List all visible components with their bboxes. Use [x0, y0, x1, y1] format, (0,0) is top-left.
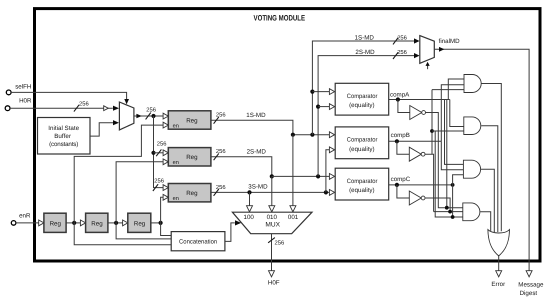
node 1S bus junction on riser — [310, 133, 314, 137]
bus slash 256 after input mux — [146, 113, 151, 120]
svg-text:256: 256 — [146, 107, 156, 114]
wire enB tap to Concatenation — [116, 223, 171, 239]
node enA junction — [72, 221, 76, 225]
svg-text:3S-MD: 3S-MD — [248, 183, 268, 190]
wire compC to inverter U3 — [397, 185, 409, 198]
wire enA tap to Concatenation — [74, 223, 171, 245]
comparator compB (equality 1S vs 3S) — [329, 132, 334, 138]
buffer triangle on H0R wire — [104, 106, 109, 111]
svg-text:(equality): (equality) — [349, 146, 375, 153]
register Reg3 (3rd stage MD) — [163, 185, 168, 191]
svg-text:256: 256 — [397, 49, 407, 56]
register RegB (enable delay 2) — [86, 213, 108, 232]
wire compC riser to AND4 input 3 — [453, 185, 463, 217]
svg-text:Reg: Reg — [186, 190, 198, 197]
inverter U2 (NOT compB) — [409, 147, 421, 161]
input port selFH — [6, 90, 11, 95]
wire input mux output to node A — [134, 115, 163, 117]
bus slash 256 on H0R wire — [74, 105, 79, 112]
node compC junction — [395, 183, 399, 187]
wire compA to inverter U1 — [398, 100, 410, 113]
svg-text:256: 256 — [275, 240, 285, 247]
wire Reg1 output 1S-MD — [211, 120, 330, 134]
register Reg1 (1st stage MD) — [163, 113, 168, 119]
node 2S bus junction on riser — [316, 174, 320, 178]
and-gate AND4 — [463, 203, 480, 221]
wire AND2 output to OR — [481, 126, 498, 232]
svg-text:010: 010 — [267, 214, 278, 221]
mux MUX (trapezoid) — [232, 212, 312, 234]
output arrow Message Digest — [526, 271, 532, 277]
svg-text:(equality): (equality) — [349, 187, 375, 194]
wire Reg2 output 2S-MD — [211, 157, 272, 177]
wire inverter U2 output riser — [425, 154, 434, 211]
wire compA riser to AND3 input 1 — [445, 100, 464, 165]
wire finalMD select stub — [427, 66, 429, 70]
svg-text:256: 256 — [79, 100, 89, 107]
Concatenation box — [171, 232, 225, 251]
wire 1S-MD riser up to finalMD mux — [312, 41, 415, 135]
or-gate OR (Error) — [488, 230, 510, 256]
wire compA riser joins AND4 input 1 — [446, 100, 448, 208]
wire 2S-MD riser up to finalMD mux — [318, 56, 415, 177]
node AND4 input 3 dot — [451, 215, 455, 219]
wire RegC tap to Concatenation — [161, 223, 172, 236]
wire enC riser to Reg3 enable — [161, 197, 164, 223]
wire inverter U1 output riser — [425, 113, 463, 208]
svg-text:Initial State: Initial State — [48, 125, 79, 132]
svg-text:Error: Error — [491, 281, 505, 288]
register Reg2 (2nd stage MD) — [163, 150, 168, 156]
svg-text:(equality): (equality) — [349, 102, 375, 109]
svg-text:1S-MD: 1S-MD — [355, 34, 375, 41]
wire compC output — [389, 184, 453, 186]
svg-text:Comparator: Comparator — [347, 178, 378, 185]
svg-text:selFH: selFH — [15, 83, 31, 90]
svg-text:Message: Message — [518, 281, 544, 288]
wire AND4 output to OR — [480, 212, 491, 231]
wire Initial State Buffer to input mux — [90, 123, 113, 136]
node compA junction — [396, 97, 400, 101]
svg-text:en: en — [173, 123, 179, 129]
wire RegC output — [151, 222, 161, 224]
wire compB riser to AND1 input 2 — [441, 85, 464, 142]
wire MUX output H0F — [271, 234, 273, 271]
node 1S riser to bottom MUX input 001 — [291, 133, 295, 137]
svg-text:H0F: H0F — [268, 279, 280, 286]
svg-text:Reg: Reg — [50, 220, 62, 227]
svg-text:Reg: Reg — [134, 220, 146, 227]
svg-text:Reg: Reg — [186, 154, 198, 161]
svg-text:2S-MD: 2S-MD — [247, 149, 267, 156]
wire Reg3 output 3S-MD — [211, 191, 330, 193]
module border box VOTING MODULE — [35, 9, 541, 261]
register RegA (enable delay 1) — [44, 213, 66, 232]
input port H0R — [5, 106, 10, 111]
node 2S junction — [270, 174, 274, 178]
node invB tap for AND2 — [430, 129, 434, 133]
wire AND4 input 2 — [434, 211, 463, 213]
and-gate AND3 — [463, 160, 480, 178]
svg-text:finalMD: finalMD — [439, 38, 461, 45]
register RegC (enable delay 3) — [128, 213, 151, 232]
svg-text:enR: enR — [19, 212, 31, 219]
svg-text:256: 256 — [216, 148, 226, 155]
wire compB output — [389, 140, 442, 142]
svg-text:100: 100 — [244, 214, 255, 221]
wire H0R to input mux — [10, 107, 113, 109]
node invC join on AND4 input 2 — [448, 210, 452, 214]
inverter U3 (NOT compC) — [409, 191, 421, 205]
wire selFH to input mux select — [11, 92, 127, 99]
wire AND3 output to OR — [481, 169, 495, 232]
svg-text:256: 256 — [216, 112, 226, 119]
node 2S tap to compA input 2 — [316, 105, 320, 109]
svg-text:Concatenation: Concatenation — [179, 239, 218, 246]
wire compC riser to AND3 input 3 — [453, 175, 464, 185]
svg-text:256: 256 — [157, 141, 167, 148]
wire compA riser to AND1 input 1 — [448, 79, 464, 100]
svg-text:en: en — [173, 196, 179, 202]
svg-text:compA: compA — [390, 91, 410, 98]
node 3S junction to bottom MUX input 100 — [247, 190, 251, 194]
input port enR — [11, 221, 16, 226]
wire invB tap to AND2 input 2 — [432, 130, 464, 132]
wire 2S to compC input 1 — [272, 175, 330, 177]
wire riser node A down to Reg3 data — [154, 116, 164, 188]
node 1S tap to compA input 1 — [310, 90, 314, 94]
node compB junction — [395, 139, 399, 143]
node enB junction — [114, 221, 118, 225]
wire compB to inverter U2 — [397, 141, 409, 154]
bus slash 256 Reg2 input — [156, 149, 161, 156]
node AND4 input 1 dot — [445, 206, 449, 210]
svg-text:256: 256 — [216, 184, 226, 191]
Initial State Buffer box — [38, 118, 91, 155]
svg-text:256: 256 — [154, 178, 164, 185]
wire RegB to RegC — [108, 222, 123, 224]
inverter U1 (NOT compA) — [410, 106, 422, 120]
comparator compC (equality 2S vs 3S) — [329, 174, 334, 180]
input mux — [119, 102, 133, 130]
wire enR to RegA — [16, 222, 39, 224]
wire AND4 input 3 left branch riser — [435, 131, 452, 217]
node B junction (Reg2 data tap) — [151, 151, 155, 155]
wire inverter U2 riser to AND1 input 3 — [432, 89, 464, 91]
wire 2S riser to bottom MUX input 010 — [271, 176, 273, 206]
wire OR output Error — [498, 256, 500, 271]
wire finalMD output to right edge riser — [434, 49, 529, 271]
node 3S junction to compB input 2 riser — [324, 190, 328, 194]
svg-text:MUX: MUX — [265, 221, 280, 228]
svg-text:H0R: H0R — [19, 97, 32, 104]
svg-text:compB: compB — [391, 132, 410, 139]
svg-text:en: en — [173, 160, 179, 166]
svg-text:1S-MD: 1S-MD — [246, 112, 266, 119]
svg-text:VOTING MODULE: VOTING MODULE — [254, 13, 306, 22]
node compC end junction — [451, 183, 455, 187]
svg-text:2S-MD: 2S-MD — [355, 49, 375, 56]
svg-text:256: 256 — [397, 35, 407, 42]
comparator compA (equality 1S vs 2S) — [329, 89, 334, 95]
svg-text:Digest: Digest — [520, 290, 538, 297]
svg-text:Comparator: Comparator — [347, 137, 378, 144]
and-gate AND2 — [464, 117, 481, 135]
svg-text:(constants): (constants) — [49, 141, 78, 148]
wire compA output — [389, 99, 450, 101]
svg-text:Comparator: Comparator — [347, 93, 378, 100]
wire node B to Reg2 data — [154, 152, 164, 154]
bus slash 256 Reg3 input — [153, 184, 158, 191]
wire inverter U3 output riser — [425, 198, 450, 212]
wire RegA to RegB — [66, 222, 80, 224]
wire Concatenation to bottom MUX — [225, 223, 235, 242]
wire compA riser to AND2 input 1 — [450, 100, 464, 127]
wire enB riser to Reg2 enable — [116, 162, 163, 223]
and-gate AND1 — [464, 75, 481, 93]
node enC junction — [159, 221, 163, 225]
wire AND1 output to OR — [481, 84, 501, 232]
node A junction — [151, 114, 155, 118]
wire compB riser to AND3 input 2 — [441, 141, 463, 170]
svg-text:Reg: Reg — [186, 117, 198, 124]
svg-text:compC: compC — [391, 176, 411, 183]
svg-text:Reg: Reg — [91, 220, 103, 227]
svg-text:Buffer: Buffer — [54, 133, 71, 140]
mux finalMD (trapezoid) — [420, 36, 435, 64]
wire enA riser to Reg1 enable — [74, 125, 163, 223]
svg-text:001: 001 — [288, 214, 299, 221]
